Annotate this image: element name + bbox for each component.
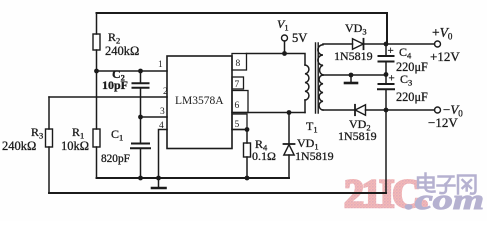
- svg-text:5: 5: [235, 120, 240, 130]
- svg-text:LM3578A: LM3578A: [175, 95, 224, 107]
- diode VD2: [354, 105, 356, 115]
- transformer T1 primary winding: [305, 65, 309, 100]
- diode VD3: [353, 39, 364, 49]
- node pin1/R2/R1 junction: [94, 69, 99, 74]
- wire -V0 junction to bottom rail: [385, 110, 387, 193]
- node C2/C1 junction: [138, 115, 143, 120]
- transformer T1 core: [316, 43, 319, 113]
- svg-text:1N5819: 1N5819: [334, 49, 373, 63]
- node +V0 junction: [384, 42, 389, 47]
- svg-text:4: 4: [159, 121, 164, 131]
- svg-text:1N5819: 1N5819: [295, 149, 334, 163]
- watermark .com: [405, 185, 484, 216]
- svg-text:240kΩ: 240kΩ: [105, 44, 139, 58]
- svg-text:5V: 5V: [292, 31, 307, 45]
- node VD1 junction: [287, 110, 292, 115]
- wire top rail: [97, 13, 388, 44]
- svg-text:−12V: −12V: [428, 115, 458, 130]
- svg-text:0.1Ω: 0.1Ω: [252, 149, 276, 163]
- svg-text:1N5819: 1N5819: [338, 129, 377, 143]
- resistor R2: [96, 13, 98, 34]
- svg-text:2: 2: [163, 87, 168, 97]
- svg-text:240kΩ: 240kΩ: [2, 139, 36, 153]
- capacitor C4: [385, 44, 387, 56]
- terminal +V0: [435, 41, 441, 47]
- resistor R3: [48, 97, 50, 129]
- diode VD1: [288, 113, 290, 145]
- wire +V0 output: [386, 43, 435, 45]
- svg-text:10pF: 10pF: [102, 78, 128, 92]
- svg-text:8: 8: [236, 59, 241, 69]
- node center tap right junction: [384, 72, 389, 77]
- ground symbol (center tap): [350, 75, 352, 82]
- resistor R1: [96, 71, 98, 129]
- svg-text:220μF: 220μF: [396, 90, 428, 104]
- watermark 21IC: [344, 171, 427, 216]
- watermark 电子网: [418, 174, 476, 194]
- node pin4/ground junction: [156, 176, 161, 181]
- wire pin2 net: [49, 96, 167, 98]
- pin 6 tab: [232, 91, 248, 113]
- wire pin1 net: [97, 70, 168, 72]
- capacitor C3: [385, 75, 387, 85]
- wire secondary top to VD3: [323, 43, 353, 45]
- node C2 top junction: [138, 69, 143, 74]
- svg-text:+: +: [389, 73, 395, 85]
- wire pin4 lead: [159, 130, 168, 179]
- node center tap ground junction: [349, 73, 354, 78]
- resistor R4: [246, 130, 248, 144]
- node -V0 junction: [384, 108, 389, 113]
- op-amp U1 LM3578A: [167, 56, 232, 149]
- transformer T1 secondary winding bottom: [319, 75, 323, 110]
- pin 5 tab: [232, 114, 247, 130]
- node C1 bottom junction: [138, 176, 143, 181]
- ground symbol (main): [158, 178, 160, 187]
- wire pin8 to V1 node: [247, 54, 306, 66]
- capacitor C1: [140, 117, 142, 143]
- pin 7 tab: [232, 77, 244, 89]
- node pin5/R4 junction: [245, 127, 250, 132]
- node V1 junction: [282, 51, 287, 56]
- terminal -V0: [435, 107, 441, 113]
- terminal V1: [282, 35, 288, 41]
- svg-text:3: 3: [160, 107, 165, 117]
- svg-text:820pF: 820pF: [101, 153, 130, 165]
- pin 8 tab: [232, 54, 247, 71]
- wire ground rail: [97, 177, 290, 179]
- wire -V0 output: [386, 109, 435, 111]
- transformer T1 secondary winding top: [318, 45, 323, 75]
- svg-text:+12V: +12V: [430, 49, 460, 64]
- wire pin3 net: [141, 116, 168, 118]
- svg-text:7: 7: [235, 80, 240, 90]
- wire pin6 net: [232, 112, 305, 114]
- svg-text:+: +: [388, 45, 394, 57]
- svg-text:10kΩ: 10kΩ: [61, 139, 89, 153]
- wire secondary bottom to VD2: [323, 109, 355, 111]
- capacitor C2: [140, 71, 142, 83]
- wire pin5 stub: [232, 129, 247, 131]
- svg-text:.com: .com: [405, 185, 484, 216]
- svg-text:6: 6: [235, 101, 240, 111]
- svg-text:1: 1: [158, 60, 163, 70]
- wire center tap: [323, 74, 386, 76]
- wire bottom rail: [49, 192, 386, 194]
- node R4 bottom junction: [245, 176, 250, 181]
